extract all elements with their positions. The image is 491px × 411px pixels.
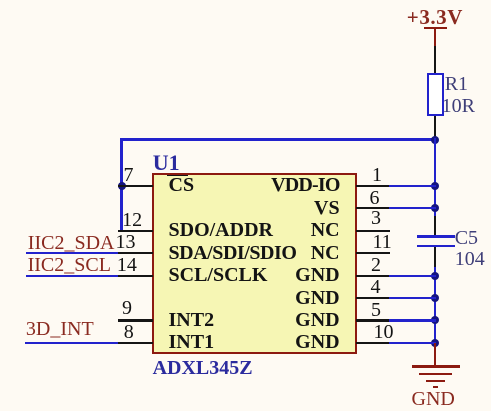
pin 8 name INT1 (169, 332, 215, 352)
IC U1 designator (153, 152, 180, 174)
resistor R1 value 10R (442, 96, 475, 116)
wire top horizontal (120, 138, 436, 140)
junction pin 1 (431, 182, 439, 190)
pin 12 name SDO/ADDR (169, 220, 273, 240)
junction pin 6 (431, 204, 439, 212)
pin 3 stub (356, 230, 390, 232)
pin 10 stub (356, 342, 390, 344)
pin 9 number (122, 298, 132, 318)
pin 10 wire (389, 342, 436, 344)
pin 7 stub (118, 185, 154, 187)
pin 5 name GND (295, 310, 339, 330)
wire left vertical (120, 138, 122, 231)
junction pin 7 (118, 182, 126, 190)
pin 5 stub (356, 319, 390, 321)
pin 12 stub (118, 230, 154, 232)
capacitor C5 value 104 (455, 249, 485, 269)
pin 13 name SDA/SDI/SDIO (169, 243, 297, 263)
ground bar 2 (419, 373, 452, 375)
pin 3 name NC (311, 220, 340, 240)
pin 7 CS overline (167, 175, 188, 177)
pin 4 name GND (295, 288, 339, 308)
IC U1 body (152, 173, 357, 354)
capacitor C5 top plate (417, 235, 456, 237)
net label IIC2_SCL (28, 255, 111, 275)
power port +3.3V label (407, 7, 463, 28)
junction pin 2 (431, 272, 439, 280)
wire net IIC2_SCL (26, 275, 120, 277)
wire net 3D_INT (25, 342, 119, 344)
pin 2 number (371, 255, 381, 275)
wire right vertical lower (434, 267, 436, 344)
junction pin 10 (431, 339, 439, 347)
pin 10 number (374, 322, 394, 342)
pin 3 number (371, 208, 381, 228)
pin 7 name CS (169, 175, 195, 195)
pin 1 number (372, 165, 382, 185)
pin 11 stub (356, 252, 390, 254)
capacitor C5 designator (455, 228, 478, 248)
power port +3.3V bar (424, 27, 447, 29)
capacitor C5 bottom plate (417, 245, 456, 247)
net label IIC2_SDA (28, 233, 115, 253)
power port +3.3V stub (434, 28, 436, 47)
pin 13 stub (118, 252, 154, 254)
pin 4 stub (356, 297, 390, 299)
pin 11 number (373, 232, 392, 252)
resistor R1 body (427, 73, 444, 117)
pin 9 name INT2 (169, 310, 215, 330)
pin 14 name SCL/SCLK (169, 265, 268, 285)
pin 1 name VDD-IO (271, 175, 340, 195)
resistor R1 bottom pin (434, 116, 436, 139)
junction top right (431, 136, 439, 144)
junction pin 5 (431, 316, 439, 324)
pin 6 stub (356, 207, 390, 209)
pin 14 number (117, 255, 137, 275)
pin 2 wire (389, 275, 436, 277)
capacitor C5 bottom pin (434, 247, 436, 267)
resistor R1 designator (445, 74, 468, 94)
pin 6 wire (389, 207, 436, 209)
ground bar 3 (426, 380, 445, 382)
pin 5 wire (389, 319, 436, 321)
pin 1 wire (389, 185, 436, 187)
pin 13 number (116, 232, 136, 252)
pin 14 stub (118, 275, 154, 277)
pin 8 stub (118, 342, 154, 344)
pin 2 name GND (295, 265, 339, 285)
pin 8 number (124, 322, 134, 342)
wire right vertical upper (434, 138, 436, 217)
pin 7 number (124, 165, 134, 185)
wire net IIC2_SDA (26, 252, 120, 254)
ground stub (434, 343, 436, 366)
pin 10 name GND (295, 332, 339, 352)
pin 6 name VS (314, 198, 340, 218)
pin 9 stub (118, 319, 154, 321)
capacitor C5 top pin (434, 216, 436, 235)
pin 1 stub (356, 185, 390, 187)
pin 5 number (371, 300, 381, 320)
resistor R1 top pin (434, 46, 436, 73)
pin 2 stub (356, 275, 390, 277)
IC U1 part name ADXL345Z (153, 358, 253, 378)
pin 4 number (371, 277, 381, 297)
net label 3D_INT (26, 319, 94, 339)
ground bar 1 (412, 365, 460, 368)
ground bar 4 (433, 386, 438, 388)
pin 11 name NC (311, 243, 340, 263)
junction pin 4 (431, 294, 439, 302)
ground label GND (412, 389, 455, 409)
pin 4 wire (389, 297, 436, 299)
pin 12 number (122, 210, 142, 230)
pin 6 number (370, 188, 380, 208)
